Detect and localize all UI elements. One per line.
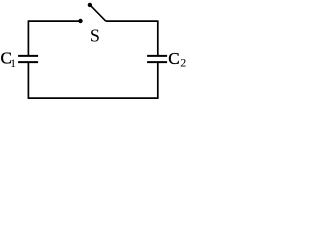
capacitor C2 bottom plate [147, 61, 167, 63]
capacitor C2 top plate [147, 55, 167, 57]
wire top-left segment [28, 20, 80, 22]
svg-text:C: C [168, 49, 179, 68]
wire left upper segment [27, 20, 29, 55]
capacitor C1 top plate [18, 55, 38, 57]
svg-text:S: S [90, 25, 100, 45]
switch S left contact node [78, 19, 82, 23]
wire left lower segment [27, 63, 29, 99]
capacitor C1 bottom plate [18, 61, 38, 63]
switch S pivot node [88, 3, 92, 7]
wire top-right segment [106, 20, 158, 22]
wire right upper segment [157, 20, 159, 55]
svg-text:1: 1 [10, 56, 16, 70]
switch S blade [90, 5, 106, 21]
wire right lower segment [157, 63, 159, 99]
wire bottom segment [28, 97, 159, 99]
svg-text:2: 2 [180, 56, 186, 70]
